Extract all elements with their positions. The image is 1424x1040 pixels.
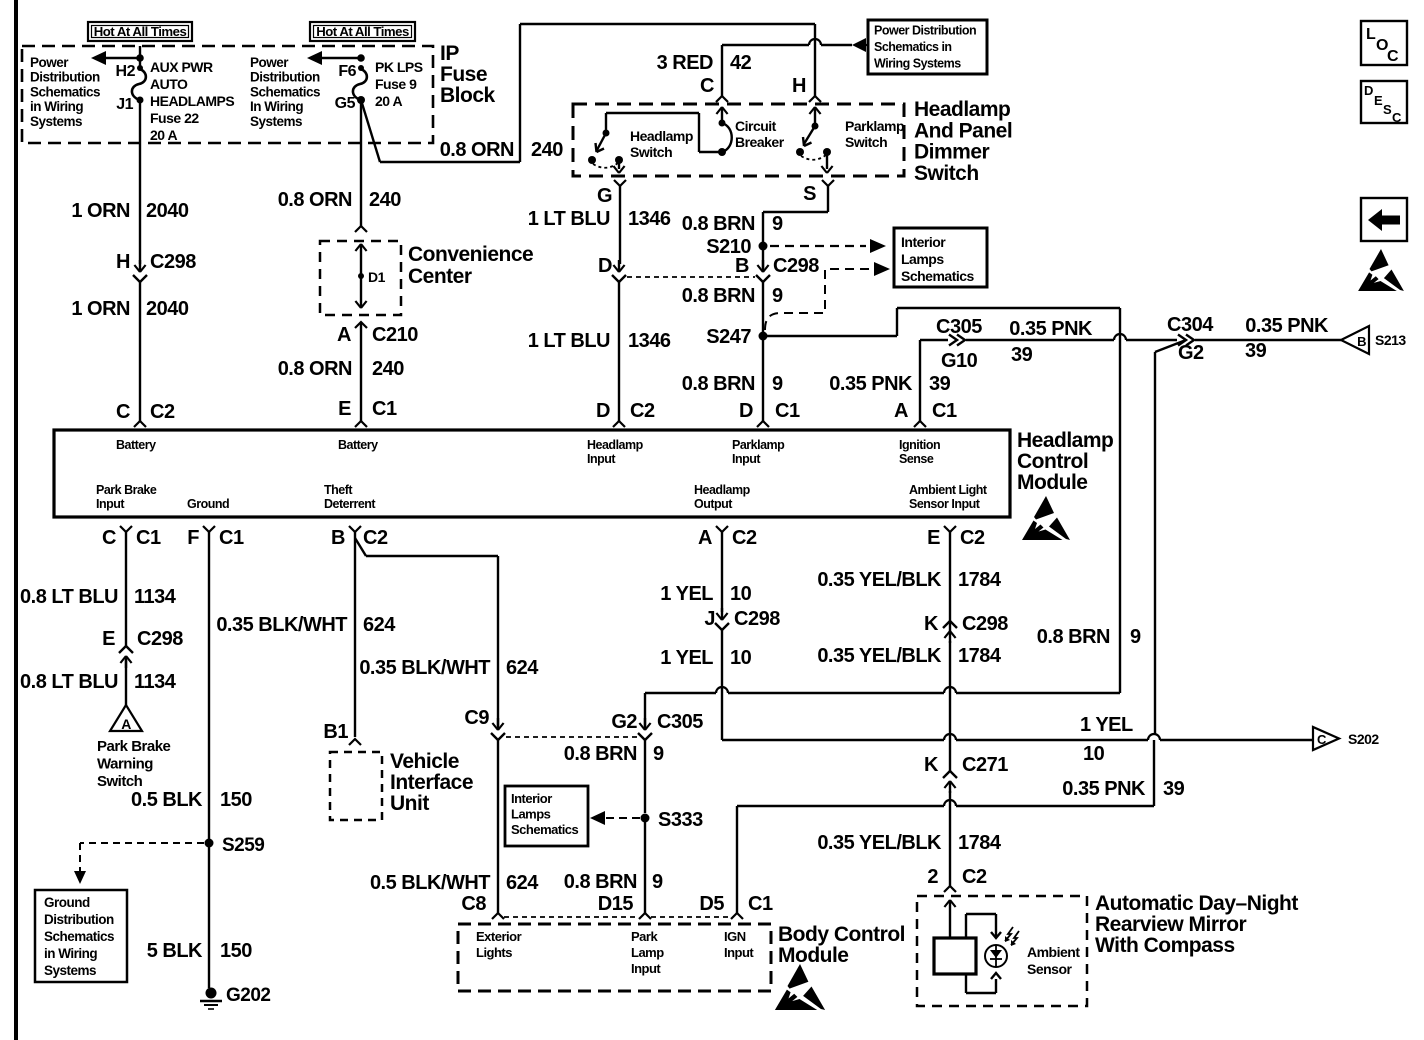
splice symbol S213 bbox=[1341, 326, 1406, 354]
svg-text:C2: C2 bbox=[150, 401, 175, 423]
svg-text:Fuse 9: Fuse 9 bbox=[375, 76, 417, 92]
svg-text:D5: D5 bbox=[699, 893, 724, 915]
svg-text:Schematics: Schematics bbox=[250, 84, 320, 99]
svg-text:S: S bbox=[803, 183, 816, 205]
svg-text:A: A bbox=[337, 324, 351, 346]
svg-text:D: D bbox=[739, 400, 753, 422]
svg-text:Battery: Battery bbox=[116, 438, 156, 452]
svg-text:G2: G2 bbox=[1178, 342, 1204, 364]
svg-text:Headlamp: Headlamp bbox=[694, 483, 751, 497]
svg-text:Sense: Sense bbox=[899, 452, 934, 466]
svg-text:Dimmer: Dimmer bbox=[914, 141, 990, 164]
svg-text:Battery: Battery bbox=[338, 438, 378, 452]
svg-text:0.8 ORN: 0.8 ORN bbox=[278, 358, 352, 380]
wire 0.35 PNK 39 branch from C304 bbox=[1155, 340, 1186, 734]
wire 0.8 BRN 9 down to G2 bbox=[644, 693, 646, 726]
svg-text:G202: G202 bbox=[226, 985, 270, 1006]
svg-text:Lamps: Lamps bbox=[901, 251, 944, 267]
wire 1 YEL 10 upper bbox=[660, 532, 751, 612]
svg-text:Wiring Systems: Wiring Systems bbox=[874, 57, 961, 71]
interior lamps schematics box 2 bbox=[505, 786, 588, 846]
svg-text:9: 9 bbox=[772, 213, 783, 235]
HCM pin label headlamp output bbox=[694, 483, 751, 511]
svg-text:Schematics: Schematics bbox=[30, 84, 100, 99]
svg-text:Theft: Theft bbox=[324, 483, 353, 497]
svg-text:20 A: 20 A bbox=[150, 127, 177, 143]
svg-text:G10: G10 bbox=[941, 350, 978, 372]
wire 1 LT BLU 1346 lower bbox=[528, 282, 671, 421]
splice S333 bbox=[641, 809, 704, 831]
fuse F22 terminal J1 bbox=[116, 96, 143, 113]
svg-text:C298: C298 bbox=[962, 613, 1008, 635]
convenience center label bbox=[408, 243, 533, 288]
mirror internal wiring bbox=[966, 914, 1001, 993]
HCM pin C C2 bbox=[116, 401, 175, 427]
svg-text:Headlamp: Headlamp bbox=[1017, 429, 1113, 452]
svg-text:Ground: Ground bbox=[187, 497, 229, 511]
svg-text:C210: C210 bbox=[372, 324, 418, 346]
svg-text:S202: S202 bbox=[1348, 731, 1379, 747]
svg-text:D15: D15 bbox=[598, 893, 634, 915]
svg-text:S247: S247 bbox=[706, 326, 751, 348]
svg-text:AUX PWR: AUX PWR bbox=[150, 59, 213, 75]
mirror module block bbox=[934, 938, 976, 974]
BCM pin label park lamp input bbox=[631, 929, 664, 976]
svg-text:C9: C9 bbox=[464, 707, 489, 729]
svg-text:Lamps: Lamps bbox=[511, 807, 551, 822]
BCM pin label exterior lights bbox=[476, 929, 522, 960]
svg-text:C305: C305 bbox=[936, 316, 982, 338]
svg-text:K: K bbox=[924, 754, 939, 776]
svg-text:1 LT BLU: 1 LT BLU bbox=[528, 330, 610, 352]
svg-text:Ambient Light: Ambient Light bbox=[909, 483, 988, 497]
svg-text:0.8 BRN: 0.8 BRN bbox=[682, 373, 755, 395]
svg-text:Interface: Interface bbox=[390, 771, 473, 794]
svg-text:0.35 YEL/BLK: 0.35 YEL/BLK bbox=[817, 569, 942, 591]
svg-text:Ground: Ground bbox=[44, 895, 90, 910]
svg-text:9: 9 bbox=[652, 871, 663, 893]
svg-text:0.35 PNK: 0.35 PNK bbox=[1245, 315, 1329, 337]
wire 1 ORN 2040 upper bbox=[71, 46, 188, 264]
BCM pin label IGN input bbox=[724, 929, 754, 960]
svg-text:Input: Input bbox=[732, 452, 761, 466]
hot at all times label 1 bbox=[88, 22, 192, 41]
svg-text:5 BLK: 5 BLK bbox=[147, 940, 203, 962]
svg-text:624: 624 bbox=[506, 872, 539, 894]
svg-text:1 YEL: 1 YEL bbox=[1080, 714, 1133, 736]
svg-text:240: 240 bbox=[369, 189, 401, 211]
svg-text:Distribution: Distribution bbox=[30, 70, 100, 85]
ground G202 bbox=[200, 985, 270, 1009]
IP fuse block label bbox=[440, 42, 496, 107]
HCM pin label ignition sense bbox=[899, 438, 940, 466]
svg-text:Fuse: Fuse bbox=[440, 63, 487, 86]
splice symbol S202 bbox=[1313, 727, 1379, 750]
svg-text:Switch: Switch bbox=[914, 162, 979, 185]
wire 0.8 BRN 9 from S bbox=[682, 186, 828, 242]
svg-text:C298: C298 bbox=[150, 251, 196, 273]
svg-text:Systems: Systems bbox=[250, 114, 302, 129]
svg-text:1784: 1784 bbox=[958, 569, 1002, 591]
dashed reference arrow S259 to ground distribution bbox=[74, 843, 204, 884]
HCM pin D C1 bbox=[739, 400, 800, 427]
svg-text:C1: C1 bbox=[775, 400, 800, 422]
svg-text:Schematics: Schematics bbox=[901, 268, 975, 284]
svg-text:F6: F6 bbox=[338, 63, 356, 80]
svg-text:150: 150 bbox=[220, 940, 252, 962]
svg-text:Input: Input bbox=[631, 961, 661, 976]
svg-text:2040: 2040 bbox=[146, 200, 189, 222]
svg-text:B: B bbox=[735, 255, 749, 277]
svg-text:Block: Block bbox=[440, 84, 496, 107]
svg-text:A: A bbox=[121, 716, 131, 732]
wire 5 BLK 150 bbox=[147, 847, 253, 988]
svg-text:With Compass: With Compass bbox=[1095, 934, 1235, 957]
svg-text:1 LT BLU: 1 LT BLU bbox=[528, 208, 610, 230]
wire 0.8 BRN 9 to D15 bbox=[564, 818, 663, 913]
svg-text:Interior: Interior bbox=[511, 791, 552, 806]
svg-text:Parklamp: Parklamp bbox=[732, 438, 785, 452]
wire 0.8 BRN 9 lower bbox=[682, 336, 783, 421]
C298 connector dashed line bbox=[627, 276, 755, 278]
svg-text:Park Brake: Park Brake bbox=[96, 483, 157, 497]
vehicle interface unit label bbox=[390, 750, 473, 815]
svg-text:C1: C1 bbox=[748, 893, 773, 915]
svg-text:Interior: Interior bbox=[901, 234, 946, 250]
svg-text:Schematics: Schematics bbox=[511, 822, 579, 837]
svg-text:1 YEL: 1 YEL bbox=[660, 647, 713, 669]
svg-text:in Wiring: in Wiring bbox=[44, 946, 97, 961]
svg-text:H2: H2 bbox=[116, 63, 136, 80]
splice S259 bbox=[205, 835, 265, 856]
wire 0.5 BLK/WHT 624 bbox=[370, 740, 539, 913]
connector E C298 bbox=[102, 628, 183, 668]
fuse F9 terminal F6 bbox=[338, 54, 364, 80]
svg-text:Lamp: Lamp bbox=[631, 945, 664, 960]
svg-text:Hot At All Times: Hot At All Times bbox=[316, 24, 409, 39]
svg-text:2: 2 bbox=[927, 866, 938, 888]
svg-text:C271: C271 bbox=[962, 754, 1008, 776]
vehicle interface unit box bbox=[330, 752, 382, 820]
dashed reference arrow S210 to interior lamps bbox=[770, 239, 886, 253]
convenience center diode D1 bbox=[355, 244, 385, 308]
connector K C271 bbox=[924, 754, 1008, 793]
convenience center box bbox=[320, 241, 401, 315]
svg-text:624: 624 bbox=[506, 657, 539, 679]
wire 1 ORN 2040 lower bbox=[71, 282, 188, 421]
svg-text:0.35 BLK/WHT: 0.35 BLK/WHT bbox=[359, 657, 490, 679]
svg-text:Control: Control bbox=[1017, 450, 1088, 473]
dashed connector line C8 D15 D5 bbox=[504, 916, 731, 918]
svg-text:Parklamp: Parklamp bbox=[845, 118, 904, 134]
svg-text:J: J bbox=[704, 608, 715, 630]
svg-text:C2: C2 bbox=[962, 866, 987, 888]
svg-text:C1: C1 bbox=[372, 398, 397, 420]
connector G2 C305 bbox=[611, 711, 703, 740]
svg-text:In Wiring: In Wiring bbox=[250, 99, 303, 114]
svg-text:Unit: Unit bbox=[390, 792, 429, 815]
svg-text:C: C bbox=[116, 401, 130, 423]
arrow to power distribution 1 bbox=[91, 51, 140, 65]
connector C304 G2 bbox=[1167, 314, 1214, 364]
svg-text:39: 39 bbox=[929, 373, 951, 395]
back arrow icon bbox=[1361, 198, 1407, 241]
svg-text:0.8 BRN: 0.8 BRN bbox=[682, 285, 755, 307]
svg-text:1134: 1134 bbox=[134, 671, 177, 693]
svg-text:C1: C1 bbox=[136, 527, 161, 549]
HCM pin C C1 bottom bbox=[102, 526, 161, 549]
wire 0.8 ORN 240 lower bbox=[278, 322, 405, 421]
svg-text:A: A bbox=[894, 400, 908, 422]
svg-text:9: 9 bbox=[1130, 626, 1141, 648]
svg-text:Switch: Switch bbox=[630, 144, 672, 160]
svg-text:E: E bbox=[927, 527, 940, 549]
power distribution schematics note 2 bbox=[250, 55, 320, 129]
wire 0.35 PNK 39 from HCM pin A bbox=[829, 340, 950, 421]
svg-text:S213: S213 bbox=[1375, 332, 1406, 348]
svg-text:Module: Module bbox=[1017, 471, 1088, 494]
svg-text:9: 9 bbox=[653, 743, 664, 765]
wire 0.8 BRN 9 mid bbox=[682, 282, 783, 332]
body control module box bbox=[458, 924, 771, 991]
HCM pin label ambient light sensor input bbox=[909, 483, 988, 511]
connector into convenience center bbox=[355, 226, 367, 232]
svg-text:S259: S259 bbox=[222, 835, 264, 856]
wire 0.35 PNK 39 after C305 bbox=[966, 318, 1177, 366]
svg-text:J1: J1 bbox=[116, 96, 133, 113]
svg-text:H: H bbox=[792, 75, 806, 97]
svg-text:Body Control: Body Control bbox=[778, 923, 905, 946]
svg-text:AUTO: AUTO bbox=[150, 76, 188, 92]
svg-text:Power Distribution: Power Distribution bbox=[874, 24, 976, 38]
HCM pin label headlamp input bbox=[587, 438, 644, 466]
svg-text:And Panel: And Panel bbox=[914, 119, 1012, 142]
headlamp control module box bbox=[54, 430, 1010, 517]
svg-text:1 YEL: 1 YEL bbox=[660, 583, 713, 605]
svg-text:C8: C8 bbox=[461, 893, 486, 915]
svg-text:E: E bbox=[1374, 93, 1383, 108]
svg-text:Headlamp: Headlamp bbox=[914, 98, 1010, 121]
svg-text:C2: C2 bbox=[732, 527, 757, 549]
svg-text:D: D bbox=[1364, 83, 1373, 98]
svg-text:G2: G2 bbox=[611, 711, 637, 733]
wire 1 YEL 10 horizontal to S202 bbox=[722, 714, 1313, 765]
svg-text:Distribution: Distribution bbox=[44, 912, 114, 927]
svg-text:D: D bbox=[598, 255, 612, 277]
arrow to power distribution 3 bbox=[852, 38, 868, 52]
svg-text:C2: C2 bbox=[960, 527, 985, 549]
wire 0.35 YEL/BLK 1784 lower bbox=[817, 791, 1002, 886]
svg-text:Ignition: Ignition bbox=[899, 438, 940, 452]
wire 0.8 BRN 9 horizontal bbox=[645, 687, 1120, 693]
connector G from dimmer switch bbox=[597, 180, 626, 207]
interior lamps schematics box 1 bbox=[894, 228, 987, 287]
ESD symbol at HCM bbox=[1022, 496, 1070, 540]
svg-text:Module: Module bbox=[778, 944, 849, 967]
dashed reference arrow S333 to interior lamps bbox=[590, 811, 640, 825]
DESC navigation icon bbox=[1361, 81, 1407, 125]
power distribution schematics box top right bbox=[868, 20, 987, 74]
IP fuse block box bbox=[22, 46, 433, 143]
hot at all times label 2 bbox=[310, 22, 415, 41]
park brake warning switch bbox=[97, 705, 171, 790]
svg-text:PK LPS: PK LPS bbox=[375, 59, 423, 75]
headlamp switch bbox=[588, 113, 722, 173]
svg-text:Systems: Systems bbox=[30, 114, 82, 129]
svg-text:Rearview Mirror: Rearview Mirror bbox=[1095, 913, 1247, 936]
svg-text:Systems: Systems bbox=[44, 963, 96, 978]
svg-text:C: C bbox=[700, 75, 714, 97]
svg-text:S: S bbox=[1383, 102, 1392, 117]
svg-text:H: H bbox=[116, 251, 130, 273]
svg-text:0.5 BLK/WHT: 0.5 BLK/WHT bbox=[370, 872, 490, 894]
connector B C298 bbox=[735, 246, 819, 282]
connector B1 into VIU bbox=[323, 721, 361, 745]
HCM pin label park brake input bbox=[96, 483, 157, 511]
svg-text:10: 10 bbox=[1083, 743, 1105, 765]
svg-text:39: 39 bbox=[1163, 778, 1185, 800]
svg-text:Vehicle: Vehicle bbox=[390, 750, 459, 773]
connector C into dimmer switch bbox=[700, 75, 728, 102]
svg-text:3 RED: 3 RED bbox=[657, 52, 713, 74]
svg-text:C298: C298 bbox=[137, 628, 183, 650]
svg-text:0.8 LT BLU: 0.8 LT BLU bbox=[20, 671, 118, 693]
svg-text:Breaker: Breaker bbox=[735, 134, 785, 150]
wire 1 YEL 10 lower bbox=[660, 630, 751, 740]
HCM pin label battery 2 bbox=[338, 438, 378, 452]
fuse F22 terminal H2 bbox=[116, 54, 144, 80]
LOC navigation icon bbox=[1361, 21, 1407, 65]
HCM pin B C2 bottom bbox=[331, 526, 388, 549]
wire 0.35 PNK 39 to S213 bbox=[1195, 315, 1341, 362]
svg-text:9: 9 bbox=[772, 373, 783, 395]
connector K C298 bbox=[924, 613, 1008, 643]
svg-text:1784: 1784 bbox=[958, 832, 1002, 854]
ambient sensor photocell bbox=[985, 927, 1019, 967]
svg-text:1346: 1346 bbox=[628, 330, 671, 352]
svg-text:Distribution: Distribution bbox=[250, 70, 320, 85]
svg-text:K: K bbox=[924, 613, 939, 635]
page left border bar bbox=[14, 0, 18, 1040]
svg-text:A: A bbox=[698, 527, 712, 549]
svg-text:Ambient: Ambient bbox=[1027, 944, 1080, 960]
svg-text:1346: 1346 bbox=[628, 208, 671, 230]
svg-text:0.35 PNK: 0.35 PNK bbox=[1062, 778, 1146, 800]
svg-text:D: D bbox=[596, 400, 610, 422]
svg-text:S333: S333 bbox=[658, 809, 703, 831]
svg-text:Sensor: Sensor bbox=[1027, 961, 1073, 977]
svg-text:F: F bbox=[187, 527, 199, 549]
circuit breaker bbox=[716, 107, 784, 156]
svg-text:150: 150 bbox=[220, 789, 252, 811]
wire 0.5 BLK 150 bbox=[131, 532, 252, 839]
HCM pin D C2 bbox=[596, 400, 655, 427]
HCM pin label ground bbox=[187, 497, 229, 511]
connector C8 into BCM bbox=[461, 893, 504, 919]
automatic day-night rearview mirror label bbox=[1095, 892, 1298, 957]
svg-text:Center: Center bbox=[408, 265, 472, 288]
svg-text:1 ORN: 1 ORN bbox=[71, 200, 130, 222]
svg-text:Headlamp: Headlamp bbox=[630, 128, 693, 144]
svg-text:0.8 LT BLU: 0.8 LT BLU bbox=[20, 586, 118, 608]
headlamp and panel dimmer switch label bbox=[914, 98, 1012, 185]
svg-text:C: C bbox=[1392, 110, 1402, 125]
svg-text:C1: C1 bbox=[219, 527, 244, 549]
wire 0.8 ORN 240 to convenience center bbox=[278, 100, 402, 226]
svg-text:Input: Input bbox=[587, 452, 616, 466]
svg-text:Fuse 22: Fuse 22 bbox=[150, 110, 199, 126]
wire 0.8 LT BLU 1134 lower bbox=[20, 660, 177, 705]
svg-text:B1: B1 bbox=[323, 721, 348, 743]
svg-text:C: C bbox=[102, 527, 116, 549]
parklamp switch bbox=[796, 107, 904, 173]
connector C305 G10 bbox=[920, 316, 982, 372]
svg-text:IGN: IGN bbox=[724, 929, 746, 944]
connector C9 bbox=[464, 707, 505, 740]
svg-text:0.8 BRN: 0.8 BRN bbox=[564, 743, 637, 765]
svg-text:10: 10 bbox=[730, 647, 752, 669]
svg-text:0.5 BLK: 0.5 BLK bbox=[131, 789, 203, 811]
connector S from dimmer switch bbox=[803, 180, 834, 205]
svg-text:Circuit: Circuit bbox=[735, 118, 777, 134]
wire 0.8 BRN 9 to ambient branch bbox=[763, 308, 1141, 693]
svg-text:Park: Park bbox=[631, 929, 658, 944]
wire branch to C9 bbox=[355, 538, 498, 726]
HCM pin A C2 bottom bbox=[698, 526, 757, 549]
svg-text:240: 240 bbox=[372, 358, 404, 380]
svg-text:0.35 YEL/BLK: 0.35 YEL/BLK bbox=[817, 645, 942, 667]
wire 0.35 PNK 39 from D5 bbox=[737, 740, 1185, 913]
svg-text:624: 624 bbox=[363, 614, 396, 636]
splice S210 bbox=[706, 236, 767, 258]
dashed reference arrow S247 to interior lamps bbox=[765, 262, 890, 330]
svg-text:0.8 BRN: 0.8 BRN bbox=[1037, 626, 1110, 648]
svg-text:G5: G5 bbox=[335, 95, 356, 112]
fuse F9 PK LPS 20A bbox=[353, 59, 423, 109]
svg-text:in Wiring: in Wiring bbox=[30, 99, 83, 114]
ESD symbol top right bbox=[1358, 249, 1404, 291]
svg-text:0.35 PNK: 0.35 PNK bbox=[829, 373, 913, 395]
svg-text:Lights: Lights bbox=[476, 945, 512, 960]
svg-text:E: E bbox=[102, 628, 115, 650]
svg-text:0.8 BRN: 0.8 BRN bbox=[682, 213, 755, 235]
svg-text:Schematics: Schematics bbox=[44, 929, 114, 944]
svg-text:C298: C298 bbox=[734, 608, 780, 630]
svg-text:C: C bbox=[1317, 732, 1327, 747]
wire 0.8 ORN 240 branch to dimmer switch bbox=[361, 24, 815, 162]
svg-text:42: 42 bbox=[730, 52, 752, 74]
wire 1 LT BLU 1346 upper bbox=[528, 186, 671, 264]
svg-text:Deterrent: Deterrent bbox=[324, 497, 376, 511]
svg-text:IP: IP bbox=[440, 42, 459, 65]
splice S247 bbox=[706, 326, 767, 348]
wire 0.35 BLK/WHT 624 label 2 bbox=[359, 657, 539, 679]
svg-text:240: 240 bbox=[531, 139, 563, 161]
svg-text:G: G bbox=[597, 185, 612, 207]
svg-text:L: L bbox=[1366, 26, 1376, 43]
svg-text:0.8 BRN: 0.8 BRN bbox=[564, 871, 637, 893]
svg-text:C: C bbox=[1387, 48, 1399, 65]
svg-text:C305: C305 bbox=[657, 711, 703, 733]
svg-text:0.8 ORN: 0.8 ORN bbox=[278, 189, 352, 211]
wire 3 RED 42 bbox=[657, 39, 852, 96]
connector D of C298 bbox=[598, 255, 626, 282]
svg-text:0.35 YEL/BLK: 0.35 YEL/BLK bbox=[817, 832, 942, 854]
connector 2 C2 into mirror bbox=[927, 866, 987, 892]
mirror feed arrow bbox=[944, 900, 955, 938]
svg-text:20 A: 20 A bbox=[375, 93, 402, 109]
svg-text:C304: C304 bbox=[1167, 314, 1214, 336]
